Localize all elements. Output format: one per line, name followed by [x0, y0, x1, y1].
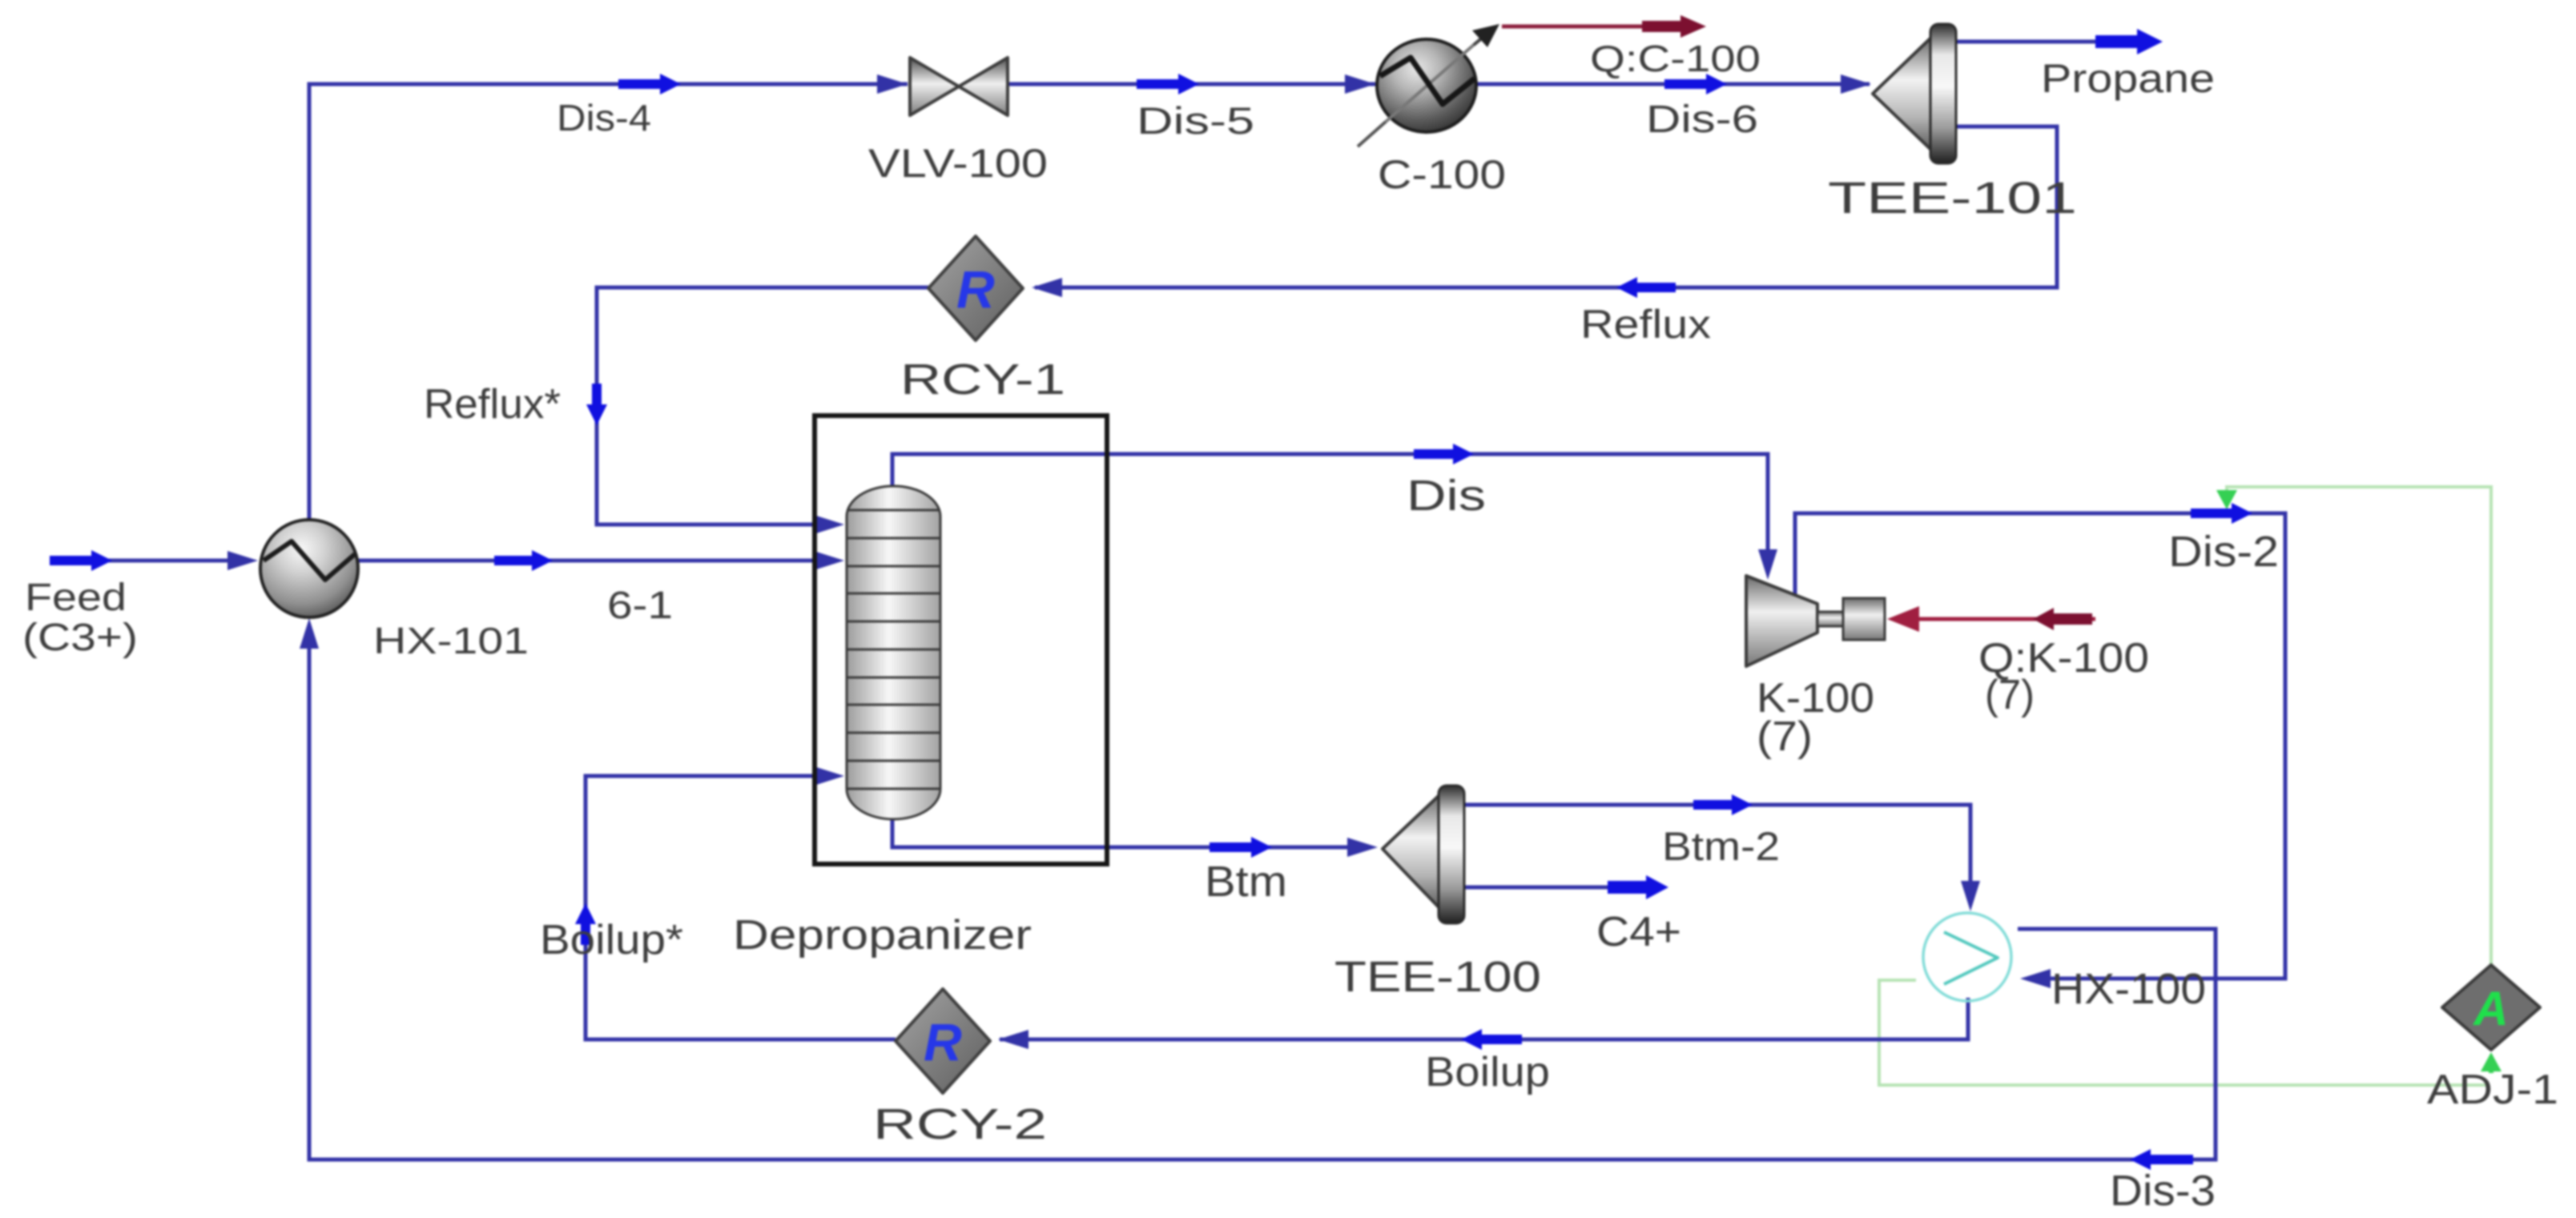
wire Dis-2 from K-100 to HX-100: [1795, 513, 2285, 979]
wire Btm-2 from TEE-100 to HX-100: [1463, 805, 1970, 887]
wire thick arrow Dis-2: [2191, 503, 2252, 524]
wire thick arrow Btm: [1210, 837, 1272, 858]
wire arrowhead Dis-3 into HX-101 bottom: [300, 618, 319, 649]
wire Boilup* from RCY-2 to column: [586, 776, 896, 1039]
svg-text:Reflux*: Reflux*: [424, 381, 561, 428]
svg-text:Reflux: Reflux: [1580, 302, 1711, 347]
wire Dis-6 from C-100 to TEE-101: [1476, 82, 1870, 86]
wire Dis-5 from VLV-100 to C-100: [1008, 82, 1375, 86]
tee TEE-101: [1873, 24, 1956, 163]
valve VLV-100: [910, 58, 1008, 115]
wire arrowhead Reflux* into column: [814, 515, 844, 534]
wire arrowhead Q:K-100 into K-100 box: [1887, 606, 1919, 632]
wire thick arrow Btm-2: [1693, 794, 1753, 815]
wire thick arrow C4+ terminal: [1608, 875, 1668, 899]
svg-text:C4+: C4+: [1596, 909, 1681, 955]
svg-text:C-100: C-100: [1378, 152, 1506, 197]
svg-text:Dis-6: Dis-6: [1646, 98, 1758, 141]
wire thick arrow Dis-5: [1137, 74, 1199, 94]
svg-text:Propane: Propane: [2041, 56, 2215, 101]
wire Boilup from HX-100 to RCY-2: [1000, 998, 1968, 1039]
svg-text:TEE-100: TEE-100: [1334, 953, 1541, 1001]
recycle RCY-1: [928, 236, 1023, 340]
svg-text:Dis-4: Dis-4: [557, 97, 651, 139]
svg-text:Dis-5: Dis-5: [1137, 99, 1254, 142]
wire thick arrow Dis-3 pointing left: [2130, 1149, 2193, 1170]
wire ADJ-1 measured arrow up into diamond: [2489, 1065, 2493, 1073]
svg-text:Q:C-100: Q:C-100: [1590, 38, 1761, 79]
svg-text:R: R: [924, 1012, 962, 1071]
wire energy Q:K-100 dark red: [1916, 617, 2095, 621]
svg-text:RCY-2: RCY-2: [873, 1100, 1047, 1148]
wire Feed into HX-101: [50, 559, 239, 563]
wire arrowhead Dis into K-100: [1758, 549, 1777, 580]
svg-text:Btm-2: Btm-2: [1662, 824, 1780, 869]
svg-text:6-1: 6-1: [607, 585, 673, 627]
wire arrowhead Btm into TEE-100: [1347, 838, 1378, 857]
column sub-flowsheet box Depropanizer: [815, 416, 1107, 864]
recycle RCY-2: [896, 989, 990, 1093]
svg-text:(7): (7): [1757, 714, 1813, 760]
wire Reflux* from RCY-1 to column: [597, 287, 928, 525]
wire arrowhead Feed into HX-101: [227, 551, 258, 570]
column tower T-100: [847, 486, 940, 819]
wire Propane from TEE-101: [1956, 40, 2102, 44]
svg-text:Dis-2: Dis-2: [2168, 528, 2279, 576]
svg-text:Btm: Btm: [1205, 858, 1287, 906]
svg-text:RCY-1: RCY-1: [900, 356, 1065, 404]
tee TEE-100: [1383, 786, 1464, 923]
svg-text:(C3+): (C3+): [22, 617, 138, 659]
wire arrowhead Dis-4 into VLV-100: [877, 74, 908, 94]
wire arrowhead Boilup into RCY-2: [998, 1030, 1028, 1049]
cooler C-100: [1358, 24, 1499, 147]
wire arrowhead Btm-2 into HX-100: [1961, 881, 1980, 911]
wire Dis from column top to K-100: [892, 454, 1768, 551]
wire 6-1 from HX-101 to column: [358, 559, 823, 563]
wire ADJ-1 adjust line to Dis-2: [2227, 487, 2491, 964]
wire thick arrow Reflux* pointing down: [586, 384, 607, 425]
svg-text:HX-101: HX-101: [373, 620, 529, 661]
svg-text:R: R: [956, 259, 995, 319]
expander K-100: [1746, 576, 1885, 666]
wire ADJ-1 adjust arrow down onto Dis-2: [2216, 490, 2237, 509]
svg-text:Boilup: Boilup: [1425, 1049, 1550, 1095]
svg-text:(7): (7): [1985, 672, 2035, 718]
wire arrowhead Reflux into RCY-1: [1032, 278, 1062, 297]
wire arrowhead Dis-6 into TEE-101: [1841, 74, 1871, 94]
wire arrowhead Dis-5 into C-100: [1345, 74, 1375, 94]
svg-text:HX-100: HX-100: [2051, 965, 2206, 1013]
wire thick arrow Boilup pointing left: [1461, 1029, 1522, 1050]
wire thick arrow Q:C-100: [1642, 15, 1706, 38]
heat exchanger HX-100: [1923, 913, 2011, 1001]
heat exchanger HX-101: [260, 520, 358, 617]
wire thick arrow 6-1: [494, 550, 553, 571]
wire thick arrow Dis-6: [1664, 74, 1727, 94]
adjust ADJ-1: [2442, 965, 2540, 1050]
wire energy Q:C-100 dark red: [1502, 25, 1692, 29]
wire arrowhead Dis-2 into HX-100: [2020, 969, 2051, 988]
wire Dis-4 from HX-101 top to VLV-100: [309, 84, 908, 522]
wire Dis-3 from HX-100 around bottom to HX-101: [309, 641, 2216, 1160]
svg-text:A: A: [2472, 982, 2508, 1035]
wire thick arrow Boilup* pointing up: [575, 903, 596, 945]
wire thick arrow Reflux pointing left: [1616, 277, 1676, 298]
wire thick arrow Propane terminal: [2095, 29, 2163, 54]
wire ADJ-1 measured line from HX-100: [1879, 980, 2486, 1085]
wire thick arrow Dis: [1414, 444, 1474, 464]
svg-text:VLV-100: VLV-100: [868, 141, 1048, 186]
svg-text:TEE-101: TEE-101: [1828, 172, 2077, 223]
svg-text:Feed: Feed: [25, 577, 127, 619]
wire arrowhead 6-1 into column: [814, 551, 844, 570]
svg-text:Boilup*: Boilup*: [540, 917, 683, 963]
wire arrowhead Boilup* into column: [814, 766, 844, 786]
wire thick arrow Feed: [50, 550, 112, 571]
wire C4+ from TEE-100: [1463, 886, 1612, 890]
wire thick arrow Q:K-100 mid pointing left: [2033, 608, 2092, 630]
svg-text:Depropanizer: Depropanizer: [733, 912, 1032, 959]
wire Btm from column bottom to TEE-100: [892, 819, 1355, 847]
svg-text:Dis: Dis: [1407, 472, 1486, 520]
wire thick arrow Dis-4: [618, 74, 681, 94]
wire Reflux from TEE-101 to RCY-1: [1035, 127, 2057, 287]
svg-text:Dis-3: Dis-3: [2110, 1167, 2216, 1215]
svg-text:ADJ-1: ADJ-1: [2427, 1067, 2558, 1113]
